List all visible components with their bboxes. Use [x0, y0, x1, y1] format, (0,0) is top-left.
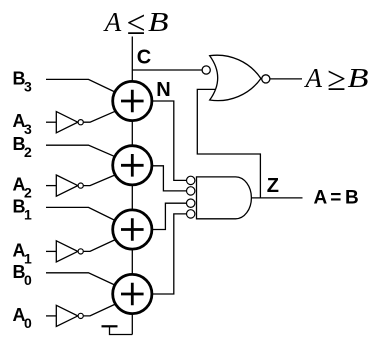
inverter A1 [56, 241, 83, 262]
svg-text:B: B [148, 7, 169, 37]
node C wire to NOR input [132, 69, 202, 71]
inverter A3 [56, 112, 83, 133]
wire A3 inverted to XOR [84, 108, 123, 122]
OR gate output bubble [262, 75, 270, 83]
AND input bubble 4 [187, 210, 195, 218]
svg-text:A: A [103, 7, 122, 37]
wire Z output [252, 197, 303, 199]
svg-text:Z: Z [267, 175, 279, 197]
AND input bubble 1 [187, 176, 195, 184]
wire input B0 [46, 273, 122, 289]
wire stage1 XOR out to AND input 3 [151, 203, 187, 229]
wire vertical cascade bus [131, 37, 133, 335]
XOR circle stage bit3 [113, 81, 152, 120]
wire input A1 [46, 250, 56, 252]
wire A0 inverted to XOR [84, 301, 123, 316]
wire A2 inverted to XOR [84, 172, 123, 186]
XOR circle stage bit2 [113, 146, 152, 185]
wire input A3 [46, 121, 56, 123]
svg-text:N: N [156, 79, 170, 101]
XOR circle stage bit0 [113, 274, 152, 313]
wire stage0 XOR out to AND input 4 [151, 214, 187, 294]
wire input A2 [46, 185, 56, 187]
svg-text:0: 0 [24, 315, 32, 331]
wire stage2 XOR out to AND input 2 [151, 166, 187, 191]
XOR circle stage bit1 [113, 210, 152, 249]
svg-text:3: 3 [24, 78, 32, 94]
svg-text:A: A [304, 63, 323, 93]
svg-text:1: 1 [24, 206, 32, 222]
svg-text:A = B: A = B [314, 187, 358, 208]
wire Z feedback to OR gate lower input [197, 89, 260, 197]
wire input B2 [46, 145, 122, 160]
wire input A0 [46, 315, 56, 317]
node N wire: stage3 XOR out to AND input 1 [151, 101, 187, 180]
wire OR output [270, 78, 303, 80]
svg-text:B: B [348, 63, 369, 93]
wire input B3 [46, 79, 122, 95]
OR gate (A>=B output gate) [210, 55, 261, 100]
AND input bubble 2 [187, 187, 195, 195]
OR gate inverted input bubble [202, 66, 210, 74]
inverter A0 [56, 305, 83, 326]
svg-text:2: 2 [24, 144, 32, 160]
svg-text:0: 0 [24, 272, 32, 288]
ground [102, 326, 133, 334]
AND input bubble 3 [187, 199, 195, 207]
wire A1 inverted to XOR [84, 236, 123, 251]
inverter A2 [56, 175, 83, 196]
svg-text:≤: ≤ [127, 5, 146, 42]
wire input B1 [46, 207, 122, 224]
svg-text:≥: ≥ [327, 61, 346, 98]
svg-text:C: C [137, 46, 151, 68]
AND gate (A=B) [197, 177, 252, 219]
